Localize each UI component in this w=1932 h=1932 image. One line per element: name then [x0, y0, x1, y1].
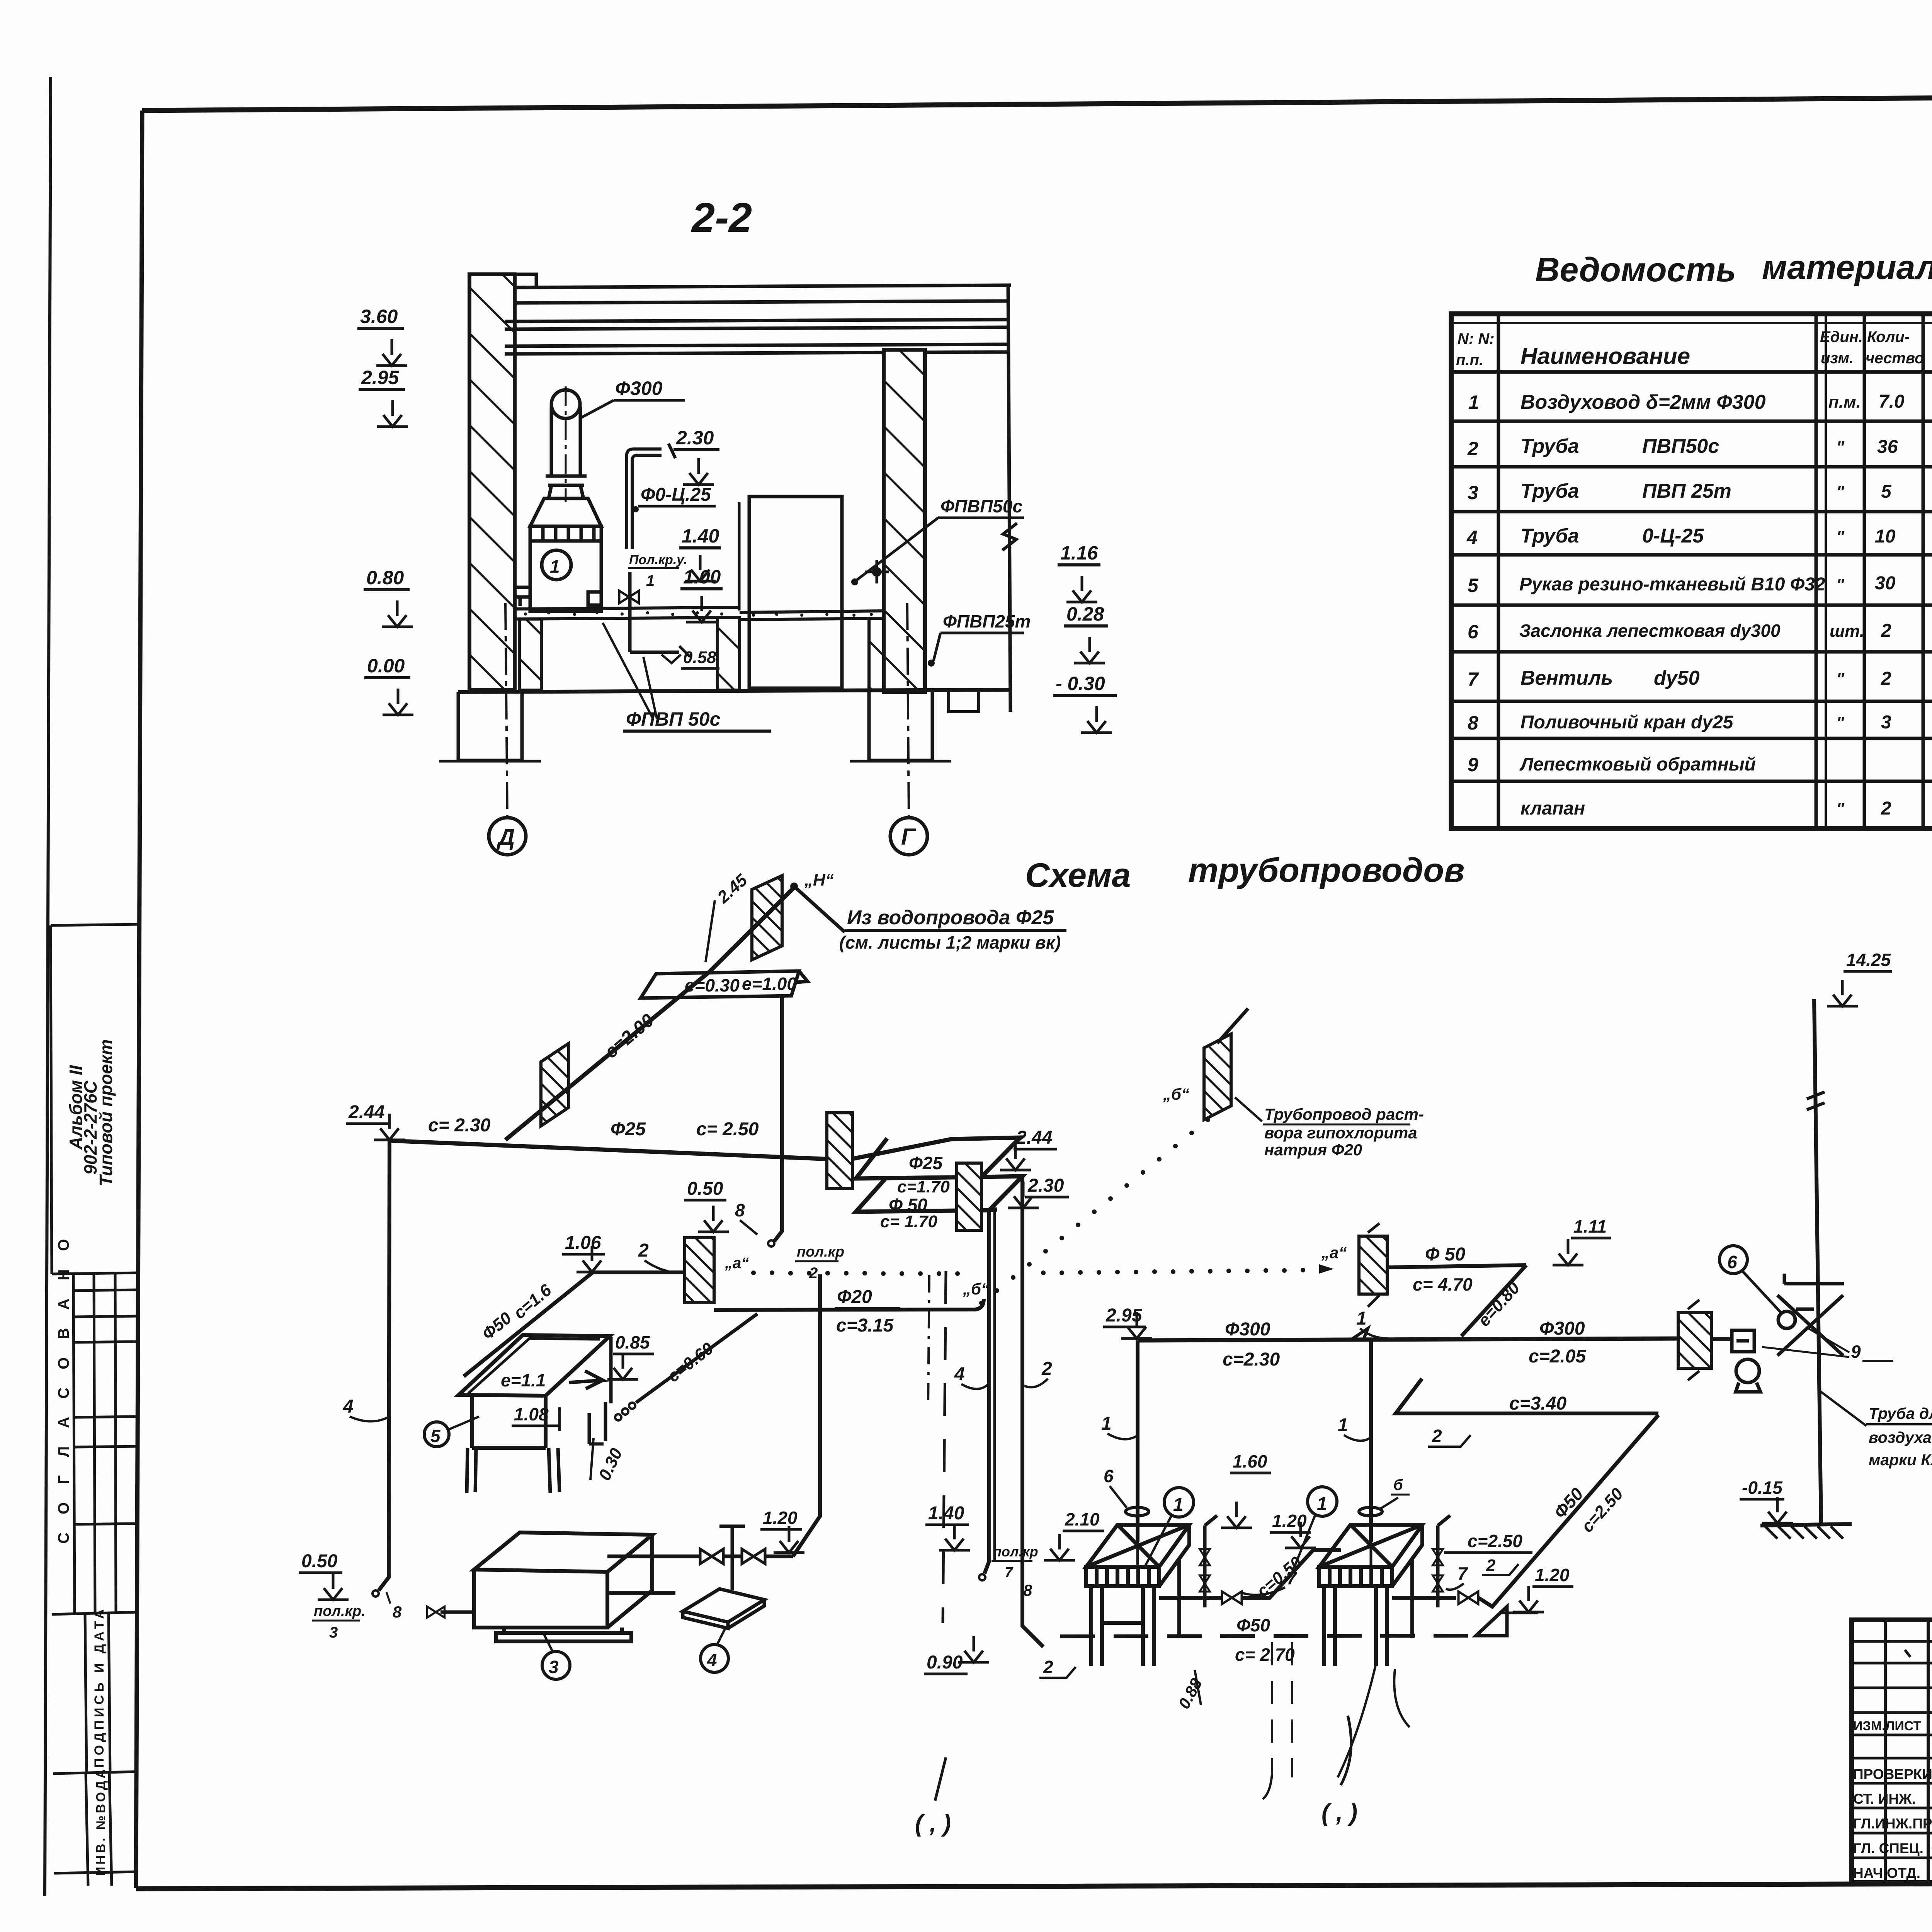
- svg-text:2.30: 2.30: [1027, 1175, 1064, 1196]
- svg-text:Ф 50: Ф 50: [1425, 1244, 1466, 1265]
- svg-text:0.85: 0.85: [615, 1332, 650, 1352]
- left margin: box Подпись и дата: [53, 1614, 138, 1774]
- svg-text:4: 4: [1466, 527, 1478, 548]
- wall pass on b diagonal: [1204, 1034, 1231, 1120]
- svg-text:7.0: 7.0: [1879, 391, 1905, 412]
- hood: [530, 498, 601, 526]
- svg-text:3: 3: [1881, 712, 1891, 733]
- svg-text:Ф25: Ф25: [611, 1119, 646, 1139]
- svg-text:ГЛ. СПЕЦ.: ГЛ. СПЕЦ.: [1853, 1840, 1923, 1856]
- wall parapet step: [515, 274, 536, 289]
- svg-text:3: 3: [329, 1624, 338, 1641]
- svg-text:2: 2: [1467, 438, 1478, 459]
- svg-text:": ": [1836, 713, 1845, 732]
- svg-text:3.60: 3.60: [360, 306, 398, 327]
- svg-text:„б“: „б“: [963, 1280, 989, 1298]
- wires from box to valves: [607, 1554, 700, 1558]
- svg-text:": ": [1836, 799, 1845, 818]
- wall pass block 1 on main: [827, 1113, 852, 1189]
- svg-text:0.88: 0.88: [1175, 1675, 1206, 1712]
- svg-text:2: 2: [1881, 621, 1891, 641]
- label трубопровод раствора: [1235, 1097, 1262, 1121]
- equipment 3: electrolysis unit box: [474, 1532, 652, 1641]
- svg-text:c=3.15: c=3.15: [836, 1315, 894, 1336]
- svg-text:Труба: Труба: [1520, 480, 1579, 502]
- svg-text:ФПВП25т: ФПВП25т: [943, 611, 1031, 631]
- leader strokes below unit B: [1338, 1665, 1376, 1777]
- svg-text:0.58: 0.58: [683, 648, 716, 667]
- small tick mark: [1905, 1650, 1910, 1657]
- svg-text:2: 2: [1432, 1426, 1442, 1446]
- svg-text:": ": [1836, 483, 1845, 502]
- electrolyzer unit in section: [515, 386, 690, 657]
- wire: riser from flag to node 8: [774, 997, 782, 1241]
- svg-text:9: 9: [1851, 1342, 1861, 1362]
- flange: [546, 474, 587, 478]
- valve column unit A: [1205, 1515, 1217, 1607]
- svg-text:1.16: 1.16: [1060, 542, 1099, 564]
- svg-text:воздуха (см.листы 12;13: воздуха (см.листы 12;13: [1869, 1429, 1932, 1446]
- svg-text:клапан: клапан: [1520, 798, 1585, 819]
- left partition rows: [1852, 1640, 1932, 1643]
- svg-text:ГЛ.ИНЖ.ПР: ГЛ.ИНЖ.ПР: [1853, 1816, 1932, 1832]
- svg-text:Лепестковый обратный: Лепестковый обратный: [1519, 754, 1756, 775]
- svg-text:": ": [1836, 670, 1845, 689]
- svg-text:7: 7: [1287, 1568, 1298, 1588]
- circle 3: [542, 1651, 570, 1679]
- svg-text:Схема: Схема: [1025, 856, 1131, 894]
- svg-text:Воздуховод δ=2мм Ф300: Воздуховод δ=2мм Ф300: [1520, 391, 1766, 413]
- svg-text:ПВП 25т: ПВП 25т: [1642, 480, 1731, 502]
- svg-text:п.п.: п.п.: [1456, 352, 1483, 369]
- svg-text:36: 36: [1877, 437, 1898, 457]
- floor stipple: [524, 611, 873, 617]
- svg-text:5: 5: [1468, 575, 1479, 596]
- wire: leader to label: [797, 889, 845, 932]
- T post: [719, 1526, 745, 1590]
- svg-text:2: 2: [1881, 668, 1891, 689]
- svg-text:материалов: материалов: [1762, 248, 1932, 286]
- svg-text:Заслонка лепестковая dy300: Заслонка лепестковая dy300: [1519, 621, 1781, 641]
- svg-text:Ф50: Ф50: [1550, 1484, 1587, 1522]
- svg-text:1.40: 1.40: [682, 525, 719, 547]
- svg-text:шт.: шт.: [1830, 622, 1864, 641]
- svg-text:c= 4.70: c= 4.70: [1413, 1274, 1473, 1294]
- svg-text:- 0.30: - 0.30: [1056, 673, 1105, 694]
- chimney pipe: [551, 390, 580, 418]
- svg-text:„б“: „б“: [1163, 1085, 1189, 1103]
- svg-text:0.50: 0.50: [687, 1179, 723, 1199]
- wire: riser to unit 1: [1136, 1340, 1139, 1542]
- svg-text:1: 1: [1173, 1495, 1184, 1515]
- svg-text:1: 1: [1101, 1413, 1112, 1434]
- wire: riser to unit 2: [1369, 1339, 1373, 1542]
- column right (hatched): [884, 350, 925, 692]
- wall pass on line 2: [685, 1238, 714, 1303]
- wire: Ф50 c=4.70: [1387, 1265, 1526, 1267]
- svg-text:1.06: 1.06: [565, 1233, 601, 1253]
- dashed drops below unit A: [1271, 1642, 1273, 1774]
- svg-text:9: 9: [1468, 754, 1478, 776]
- svg-text:Ф20: Ф20: [837, 1287, 872, 1307]
- svg-text:4: 4: [954, 1364, 965, 1384]
- wire: pipe from unit B to main riser diagonal: [1392, 1596, 1456, 1600]
- svg-text:2-2: 2-2: [691, 194, 752, 241]
- wire: diagonal c=2.00: [505, 972, 709, 1140]
- svg-text:0.80: 0.80: [366, 567, 404, 588]
- border frame bottom: [136, 1882, 1932, 1889]
- svg-text:марки КЖ): марки КЖ): [1869, 1451, 1932, 1469]
- svg-text:2: 2: [1043, 1657, 1053, 1677]
- svg-text:2.95: 2.95: [361, 367, 400, 388]
- svg-text:1.11: 1.11: [1573, 1216, 1607, 1236]
- label flag e=0.30 e=1.00: [641, 971, 808, 998]
- foundation piers under floor (hatched): [519, 619, 541, 690]
- svg-text:c=2.50: c=2.50: [1578, 1484, 1627, 1536]
- svg-text:N: N:: N: N:: [1458, 330, 1495, 347]
- svg-text:НАЧ.ОТД.: НАЧ.ОТД.: [1853, 1865, 1920, 1881]
- flap valve assembly: [1711, 1337, 1732, 1341]
- svg-text:Рукав резино-тканевый В10 Ф32: Рукав резино-тканевый В10 Ф32: [1519, 574, 1825, 595]
- svg-text:": ": [1836, 527, 1845, 546]
- svg-text:пол.кр.: пол.кр.: [314, 1603, 366, 1619]
- wire: scan edge line far left: [45, 77, 51, 1896]
- svg-text:СТ. ИНЖ.: СТ. ИНЖ.: [1853, 1791, 1916, 1807]
- svg-text:Ф300: Ф300: [1225, 1319, 1270, 1340]
- svg-text:c=2.00: c=2.00: [601, 1010, 658, 1062]
- svg-text:": ": [1836, 438, 1845, 457]
- svg-text:c=2.05: c=2.05: [1529, 1346, 1586, 1367]
- svg-text:0.50: 0.50: [301, 1551, 338, 1571]
- border frame left: [136, 111, 142, 1888]
- svg-text:б: б: [1393, 1476, 1403, 1493]
- svg-text:10: 10: [1875, 526, 1896, 547]
- equipment 5: lab table (isometric): [459, 1335, 611, 1493]
- svg-text:пол.кр: пол.кр: [993, 1544, 1038, 1560]
- plinth step right: [949, 692, 979, 712]
- svg-text:Коли-: Коли-: [1867, 328, 1910, 345]
- node H dot: [790, 883, 798, 890]
- circle 1 tags: [1164, 1488, 1194, 1517]
- svg-text:c= 2.50: c= 2.50: [696, 1119, 759, 1139]
- svg-text:Един.: Един.: [1820, 328, 1863, 345]
- wire: riser 4 (left): [985, 1210, 989, 1573]
- svg-text:7: 7: [1458, 1563, 1468, 1583]
- svg-text:c=0.60: c=0.60: [664, 1338, 717, 1386]
- svg-text:1: 1: [1356, 1308, 1367, 1329]
- svg-text:2.10: 2.10: [1065, 1509, 1100, 1529]
- svg-text:c=1.70: c=1.70: [897, 1177, 950, 1196]
- ground line: [458, 690, 1011, 692]
- wall left (hatched): [469, 274, 515, 690]
- svg-text:6: 6: [1727, 1252, 1737, 1272]
- svg-text:2.30: 2.30: [676, 427, 714, 449]
- svg-text:пол.кр: пол.кр: [797, 1244, 844, 1260]
- valve cross in section: [619, 591, 639, 603]
- svg-text:чество: чество: [1866, 350, 1924, 367]
- svg-text:Ф50: Ф50: [1236, 1615, 1270, 1635]
- left margin: box Инв № вода: [86, 1773, 112, 1886]
- svg-text:8: 8: [393, 1603, 402, 1621]
- plate item 4: [683, 1589, 764, 1628]
- svg-text:c= 2.70: c= 2.70: [1235, 1645, 1295, 1665]
- anchor cross on column: [865, 560, 889, 583]
- svg-text:вора гипохлорита: вора гипохлорита: [1264, 1124, 1417, 1142]
- zigzag pipes through wall 2: [856, 1138, 1022, 1212]
- svg-text:п.м.: п.м.: [1828, 393, 1861, 412]
- wire: c=3.40 line: [1396, 1379, 1658, 1413]
- dotted diagonal b: [979, 1117, 1210, 1305]
- wire: main duct Ф300: [1138, 1338, 1678, 1340]
- svg-text:8: 8: [735, 1200, 745, 1220]
- svg-text:Ф300: Ф300: [1539, 1318, 1585, 1339]
- left strip bottom divider: [54, 1872, 138, 1873]
- svg-text:изм.: изм.: [1821, 350, 1854, 367]
- svg-text:0.90: 0.90: [927, 1652, 963, 1673]
- svg-text:e=0.80: e=0.80: [1475, 1278, 1524, 1330]
- svg-text:0.00: 0.00: [367, 655, 405, 677]
- svg-text:ИНВ. №ВОДА: ИНВ. №ВОДА: [94, 1767, 108, 1876]
- svg-text:( , ): ( , ): [1321, 1799, 1357, 1826]
- left margin: box "Типовой проект 902-2-276С Альбом II": [51, 924, 140, 1274]
- label труба для выброса: [1820, 1391, 1866, 1426]
- dotted line a: [751, 1268, 1305, 1276]
- svg-text:ПВП50с: ПВП50с: [1642, 435, 1719, 457]
- footing left: [458, 692, 522, 760]
- table grid: [1451, 314, 1932, 828]
- svg-text:2: 2: [638, 1240, 649, 1261]
- svg-text:ФПВП50с: ФПВП50с: [940, 496, 1022, 516]
- body: [530, 541, 601, 611]
- wire: main horizontal Ф25: [389, 1141, 832, 1159]
- svg-text:14.25: 14.25: [1846, 950, 1891, 970]
- valve column unit B: [1438, 1515, 1450, 1607]
- svg-text:0.28: 0.28: [1066, 603, 1104, 625]
- axis Г: [907, 603, 909, 818]
- svg-text:Вентиль: Вентиль: [1520, 667, 1613, 689]
- wire: riser continuation into unit B: [1370, 1542, 1372, 1584]
- left margin: box Согласовано: [52, 1274, 139, 1614]
- wire: drop c=0.80: [1461, 1265, 1526, 1336]
- svg-text:трубопроводов: трубопроводов: [1188, 851, 1464, 889]
- svg-text:ПРОВЕРКИ: ПРОВЕРКИ: [1853, 1766, 1932, 1782]
- svg-text:1.20: 1.20: [1535, 1565, 1570, 1585]
- svg-text:-0.15: -0.15: [1742, 1478, 1783, 1498]
- svg-text:5: 5: [430, 1426, 441, 1446]
- svg-text:Ф0-Ц.25: Ф0-Ц.25: [641, 485, 711, 505]
- wall pass on diagonal c=2.00: [541, 1043, 569, 1126]
- svg-text:натрия Ф20: натрия Ф20: [1264, 1141, 1362, 1159]
- wire: left riser down: [379, 1141, 389, 1590]
- svg-text:2.44: 2.44: [1016, 1128, 1052, 1148]
- svg-text:Поливочный кран dy25: Поливочный кран dy25: [1520, 712, 1734, 733]
- exhaust stack: [1814, 999, 1821, 1525]
- svg-text:5: 5: [1881, 481, 1892, 502]
- wire: line 2 horizontal: [593, 1270, 685, 1274]
- svg-text:6: 6: [1468, 621, 1479, 643]
- right outer edge line: [1008, 285, 1010, 712]
- axis Д: [505, 603, 507, 818]
- wire: inlet from H: [709, 889, 793, 972]
- dashed riser: [943, 1271, 946, 1623]
- svg-text:( , ): ( , ): [915, 1810, 951, 1837]
- svg-text:c=2.30: c=2.30: [1223, 1349, 1280, 1370]
- wall pass on Ф300 right: [1678, 1313, 1711, 1368]
- svg-text:„а“: „а“: [1321, 1243, 1347, 1262]
- svg-text:6: 6: [1104, 1466, 1114, 1486]
- svg-text:Ф25: Ф25: [909, 1153, 943, 1173]
- svg-text:Труба: Труба: [1520, 525, 1579, 547]
- svg-text:1: 1: [1468, 391, 1479, 413]
- ground at stack: [1760, 1524, 1852, 1526]
- svg-text:Труба для выброса: Труба для выброса: [1869, 1405, 1932, 1422]
- svg-text:ИЗМ.ЛИСТ: ИЗМ.ЛИСТ: [1853, 1719, 1922, 1733]
- svg-text:1: 1: [1317, 1494, 1327, 1514]
- svg-text:dy50: dy50: [1654, 667, 1700, 689]
- svg-text:0.30: 0.30: [595, 1445, 626, 1483]
- border frame top: [142, 93, 1932, 111]
- svg-text:Из водопровода Ф25: Из водопровода Ф25: [847, 906, 1054, 929]
- svg-text:3: 3: [1468, 482, 1478, 503]
- wire: riser to mid level: [793, 1274, 820, 1556]
- svg-text:ПОДПИСЬ И ДАТА: ПОДПИСЬ И ДАТА: [92, 1606, 107, 1768]
- svg-text:c= 1.70: c= 1.70: [880, 1212, 938, 1231]
- svg-text:„а“: „а“: [724, 1255, 749, 1272]
- svg-text:1.40: 1.40: [928, 1503, 964, 1524]
- svg-text:e=1.1: e=1.1: [501, 1370, 546, 1390]
- svg-text:1: 1: [646, 572, 655, 589]
- svg-text:ФПВП 50с: ФПВП 50с: [626, 708, 721, 730]
- wire: riser 2 (right): [1022, 1176, 1043, 1647]
- equipment 1: electrolyzer unit B: [1319, 1525, 1422, 1666]
- svg-text:3: 3: [549, 1657, 559, 1677]
- svg-text:Трубопровод раст-: Трубопровод раст-: [1264, 1105, 1424, 1123]
- Ф20 pipe: [714, 1299, 984, 1310]
- svg-text:Труба: Труба: [1520, 435, 1579, 457]
- svg-text:2: 2: [1041, 1359, 1052, 1379]
- wire: pipe from unit A: [1159, 1596, 1221, 1600]
- svg-text:„Н“: „Н“: [804, 871, 834, 889]
- wire: diagonal to table Ф50 c=1.6: [464, 1272, 593, 1376]
- break mark on right edge: [1002, 523, 1017, 550]
- circle 5: [424, 1422, 449, 1447]
- svg-text:Г: Г: [901, 824, 917, 850]
- svg-text:1: 1: [550, 556, 560, 577]
- svg-text:1: 1: [1338, 1415, 1348, 1435]
- svg-text:2.45: 2.45: [713, 871, 751, 907]
- svg-text:Ведомость: Ведомость: [1535, 250, 1736, 289]
- svg-text:1.20: 1.20: [763, 1508, 798, 1528]
- door / cabinet: [749, 497, 842, 688]
- svg-text:4: 4: [343, 1396, 354, 1417]
- svg-text:2: 2: [1486, 1556, 1496, 1575]
- svg-text:": ": [1836, 575, 1845, 594]
- svg-text:4: 4: [707, 1650, 717, 1670]
- svg-text:Ф300: Ф300: [615, 378, 663, 399]
- ceiling slab bands: [505, 285, 1011, 354]
- wire: riser 4 second line: [993, 1211, 996, 1562]
- svg-text:e=1.00: e=1.00: [742, 974, 797, 994]
- wall pass block 2: [957, 1163, 981, 1230]
- svg-text:0-Ц-25: 0-Ц-25: [1642, 525, 1704, 547]
- floor slab: [515, 607, 884, 620]
- svg-text:8: 8: [1468, 712, 1478, 734]
- svg-text:c=1.6: c=1.6: [510, 1281, 555, 1323]
- wall pass (isometric) at H: [752, 876, 782, 960]
- svg-text:30: 30: [1875, 573, 1896, 594]
- dashed underground pipe: [1060, 1636, 1476, 1636]
- left partition verticals: [1884, 1620, 1887, 1883]
- svg-text:Наименование: Наименование: [1520, 343, 1690, 369]
- svg-text:Пол.кр.у.: Пол.кр.у.: [629, 553, 687, 567]
- svg-text:7: 7: [1005, 1565, 1014, 1581]
- svg-text:Альбом II: Альбом II: [66, 1065, 86, 1150]
- svg-text:c=3.40: c=3.40: [1509, 1393, 1566, 1414]
- svg-text:c=2.50: c=2.50: [1468, 1531, 1522, 1551]
- svg-text:2.44: 2.44: [348, 1102, 384, 1122]
- svg-text:c= 2.30: c= 2.30: [428, 1115, 491, 1136]
- valve on left stub: [440, 1611, 474, 1614]
- cells band: [530, 526, 601, 541]
- svg-text:(см. листы 1;2 марки вк): (см. листы 1;2 марки вк): [839, 932, 1061, 952]
- svg-text:2: 2: [1881, 798, 1891, 819]
- equipment 1: electrolyzer unit A: [1086, 1525, 1189, 1666]
- dash-dot stub: [928, 1275, 929, 1406]
- circled 6: [1719, 1246, 1747, 1274]
- left pipes to wall: [515, 586, 530, 589]
- wire: riser continuation into unit A: [1136, 1542, 1139, 1584]
- svg-text:1.00: 1.00: [683, 566, 721, 588]
- svg-text:Д: Д: [496, 824, 515, 850]
- svg-text:7: 7: [1468, 668, 1479, 690]
- svg-text:8: 8: [1023, 1581, 1032, 1599]
- svg-text:1.08: 1.08: [514, 1404, 549, 1424]
- wire: hose c=0.60: [615, 1414, 621, 1420]
- vertical pipe and under-floor run: [628, 572, 632, 652]
- svg-text:С О Г Л А С О В А Н О: С О Г Л А С О В А Н О: [55, 1232, 72, 1544]
- footing right: [869, 692, 932, 760]
- pipe Ф0-Ц25 riser: [627, 444, 675, 549]
- svg-text:1.60: 1.60: [1233, 1451, 1267, 1471]
